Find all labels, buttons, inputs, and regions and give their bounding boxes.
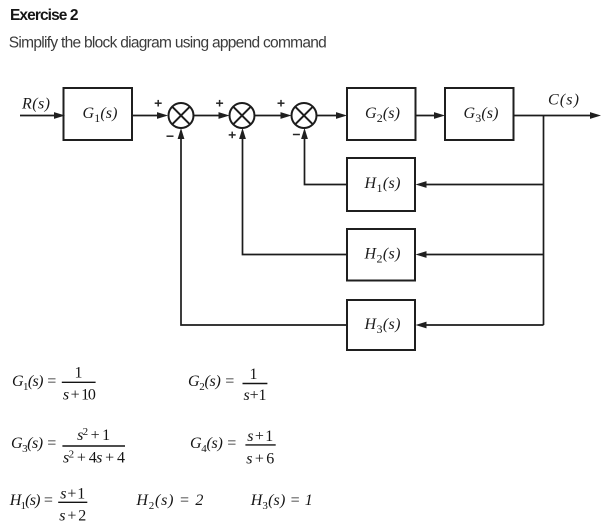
svg-text:G1(s) =: G1(s) = (12, 373, 57, 393)
svg-text:s + 6: s + 6 (246, 450, 274, 467)
svg-text:C(s): C(s) (548, 92, 579, 109)
svg-text:G1(s): G1(s) (83, 105, 118, 125)
svg-text:G3(s): G3(s) (464, 105, 499, 125)
svg-text:G2(s) =: G2(s) = (188, 373, 235, 393)
svg-text:H1(s) =: H1(s) = (9, 492, 54, 512)
svg-text:1: 1 (75, 365, 83, 382)
svg-text:s + 1: s + 1 (244, 387, 267, 404)
svg-text:s + 1: s + 1 (60, 485, 85, 502)
svg-text:Simplify the block diagram usi: Simplify the block diagram using append … (9, 35, 327, 52)
svg-text:H3(s): H3(s) (364, 316, 401, 336)
svg-text:s + 1: s + 1 (247, 428, 273, 445)
svg-text:R(s): R(s) (21, 96, 50, 113)
svg-text:H2(s): H2(s) (364, 246, 401, 266)
svg-text:s2 + 1: s2 + 1 (77, 426, 110, 444)
svg-text:H1(s): H1(s) (364, 175, 401, 195)
svg-text:G4(s) =: G4(s) = (190, 435, 237, 455)
svg-text:s2 + 4s + 4: s2 + 4s + 4 (63, 448, 125, 466)
svg-text:s + 2: s + 2 (59, 508, 86, 525)
svg-text:H2(s) = 2: H2(s) = 2 (135, 492, 203, 512)
svg-text:G3(s) =: G3(s) = (11, 435, 57, 455)
svg-text:H3(s) = 1: H3(s) = 1 (250, 492, 313, 512)
svg-text:G2(s): G2(s) (365, 105, 400, 125)
svg-text:1: 1 (250, 366, 258, 383)
svg-text:s + 10: s + 10 (63, 387, 96, 404)
svg-text:Exercise 2: Exercise 2 (10, 7, 79, 24)
